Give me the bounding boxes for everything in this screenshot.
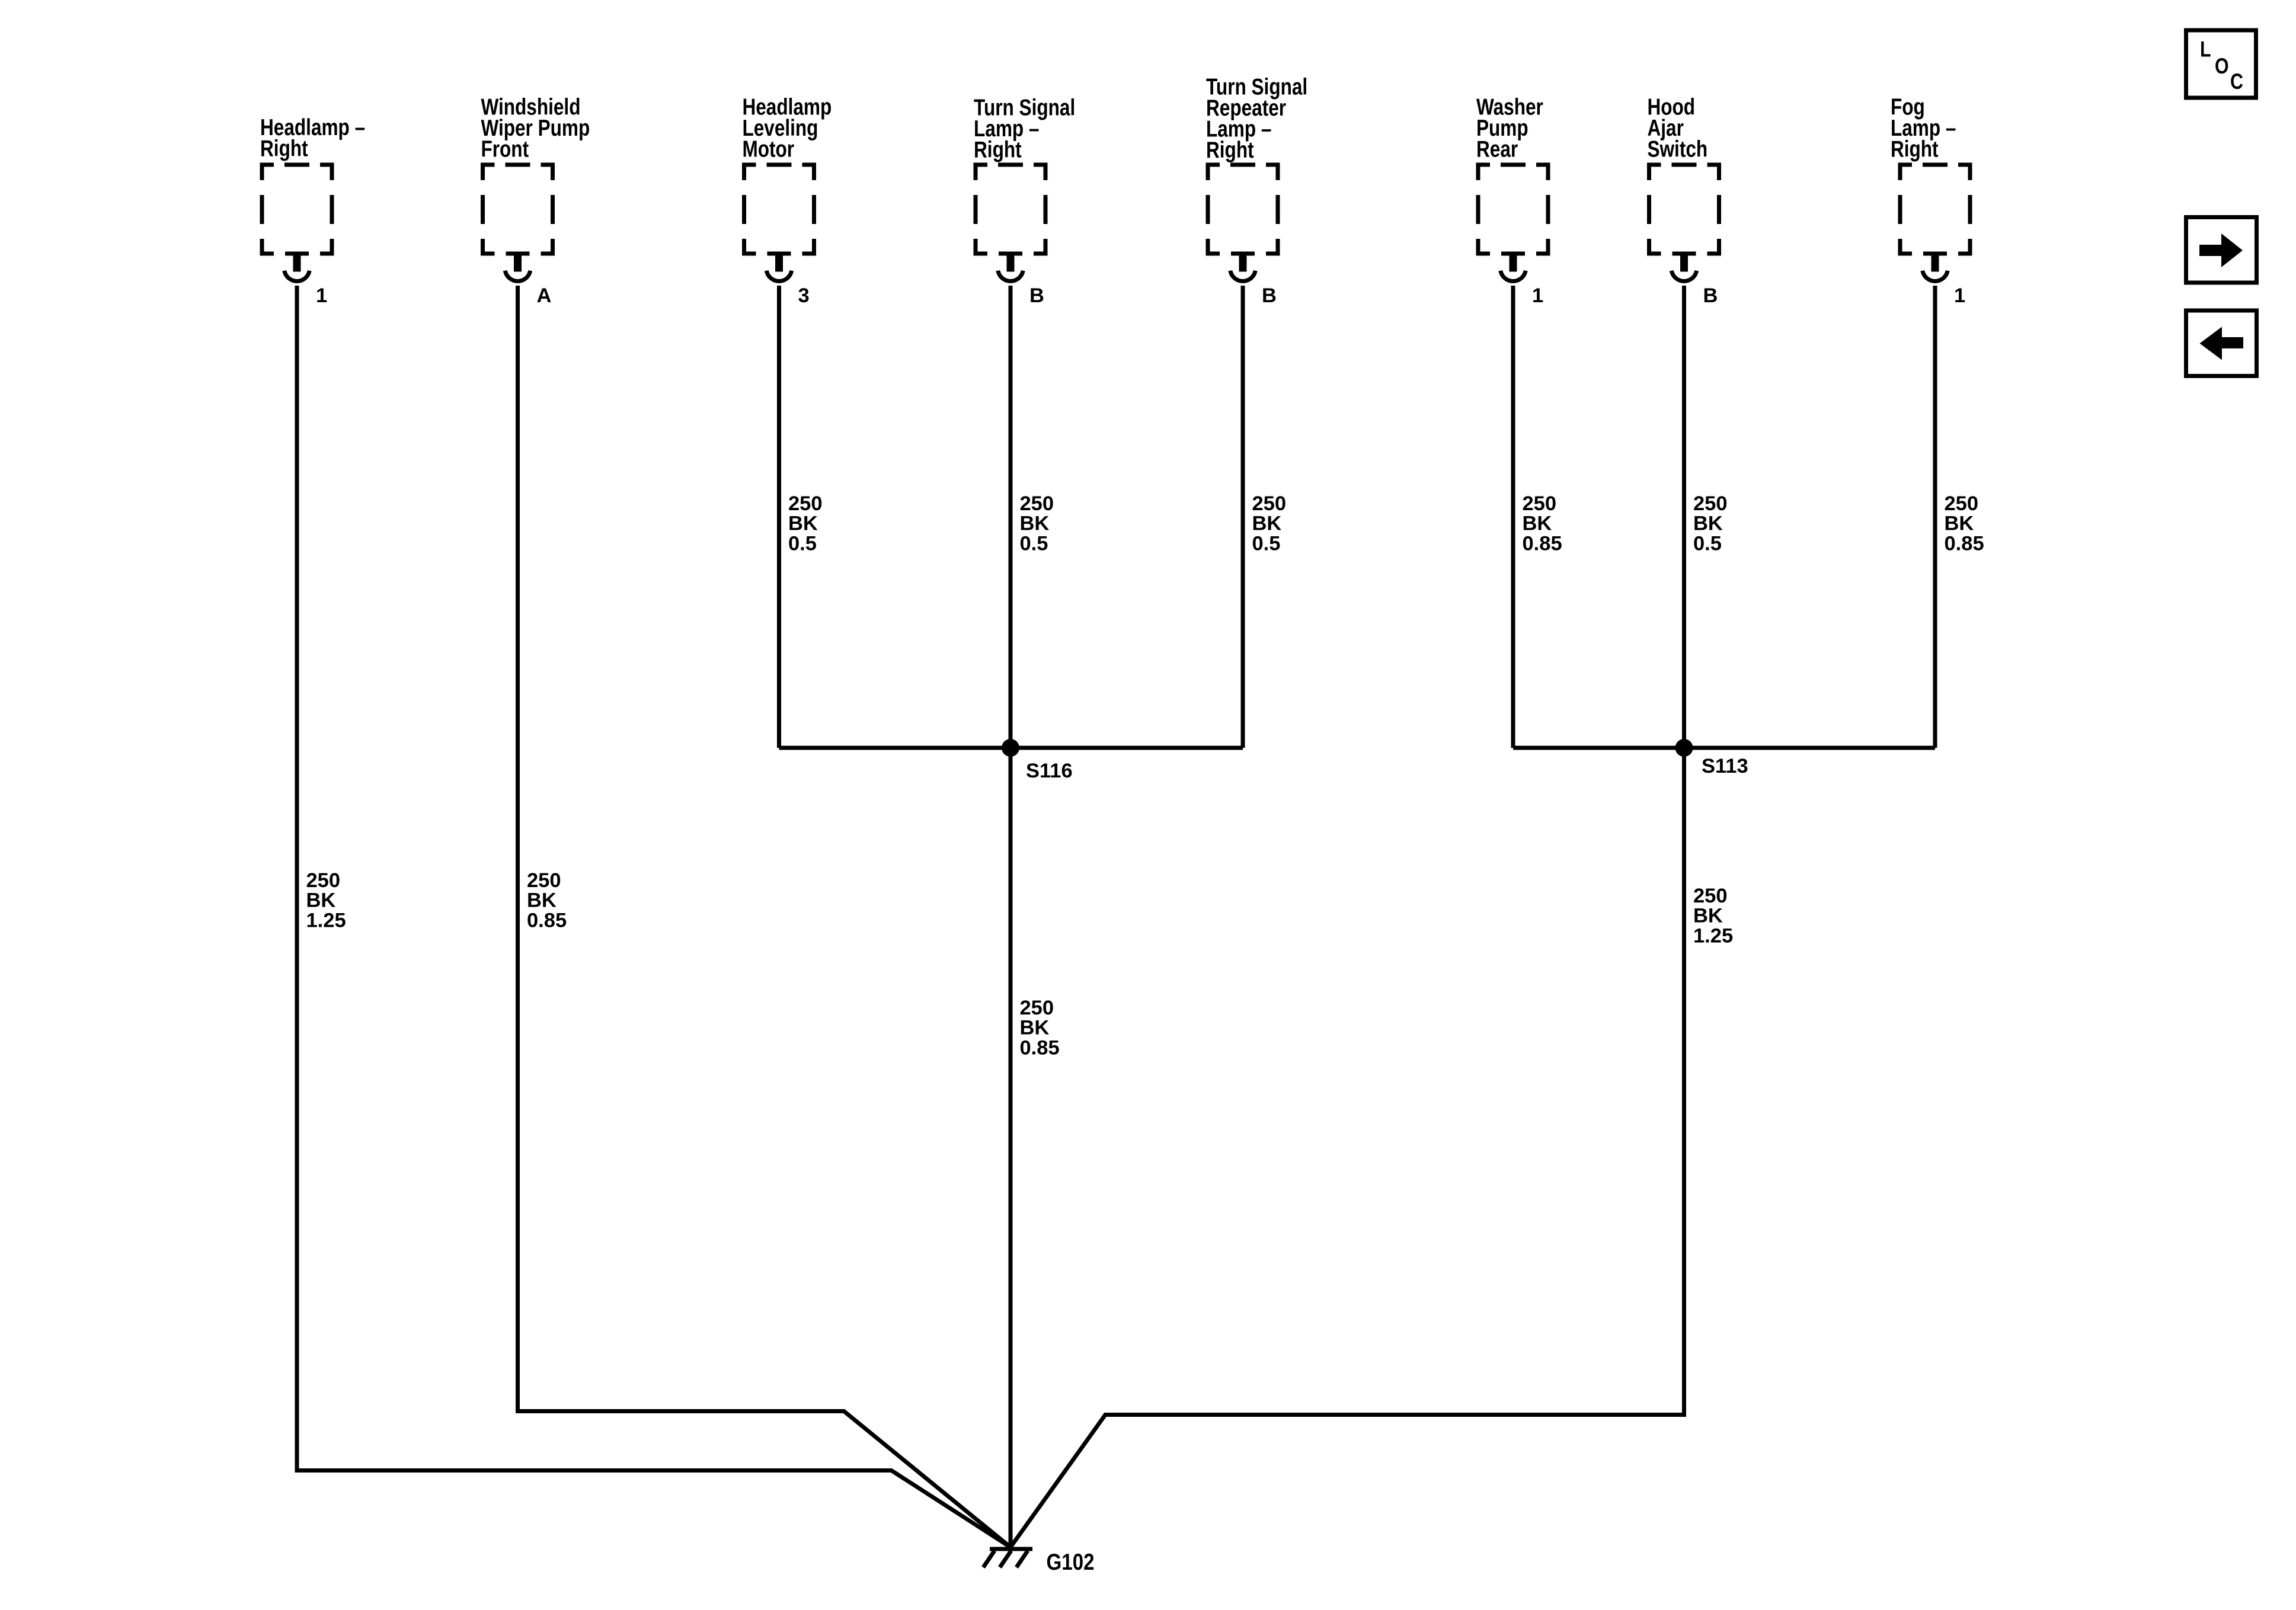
wire W5 Turn Signal Repeater to S116: [1241, 286, 1245, 748]
wire W4 Turn Signal Lamp through S116 to G102: [1009, 286, 1013, 1549]
wire bus S116: [779, 746, 1243, 750]
svg-text:0.5: 0.5: [788, 532, 817, 555]
svg-text:250: 250: [306, 869, 341, 892]
svg-text:0.85: 0.85: [1523, 532, 1562, 555]
wire bus S113: [1513, 746, 1935, 750]
svg-text:250: 250: [1020, 997, 1054, 1019]
connector C7 Hood Ajar Switch: [1647, 163, 1721, 281]
label C6 Washer Pump Rear: [1476, 95, 1543, 162]
svg-text:250: 250: [1523, 492, 1557, 515]
connector C6 Washer Pump Rear: [1476, 163, 1550, 281]
svg-text:O: O: [2215, 54, 2229, 79]
svg-text:BK: BK: [788, 513, 818, 535]
svg-text:250: 250: [527, 869, 561, 892]
connector C1 Headlamp Right: [260, 163, 334, 281]
svg-text:BK: BK: [527, 889, 557, 912]
svg-text:250: 250: [788, 492, 823, 515]
svg-text:1: 1: [1954, 284, 1965, 307]
svg-text:BK: BK: [1693, 905, 1723, 927]
svg-text:BK: BK: [306, 889, 336, 912]
svg-text:250: 250: [1693, 492, 1728, 515]
wire W2 Windshield Wiper Pump to G102: [518, 286, 1011, 1547]
connector C3 Headlamp Leveling Motor: [742, 163, 816, 281]
svg-text:BK: BK: [1945, 513, 1974, 535]
svg-text:S116: S116: [1026, 760, 1073, 782]
svg-text:BK: BK: [1523, 513, 1552, 535]
svg-text:250: 250: [1945, 492, 1979, 515]
svg-text:0.5: 0.5: [1693, 532, 1722, 555]
junction S113 dot: [1675, 739, 1693, 757]
svg-text:BK: BK: [1252, 513, 1282, 535]
LOC letter L: [2200, 37, 2211, 62]
svg-text:B: B: [1703, 284, 1718, 307]
svg-text:250: 250: [1020, 492, 1054, 515]
svg-text:1.25: 1.25: [1693, 924, 1733, 947]
wire W3 Headlamp Leveling Motor to S116: [777, 286, 781, 748]
node G102 label: [1047, 1548, 1095, 1574]
label C5 Turn Signal Repeater Lamp - Right: [1206, 75, 1307, 163]
svg-text:Rear: Rear: [1476, 137, 1518, 162]
wire W6 Washer Pump Rear to S113: [1511, 286, 1515, 748]
svg-text:C: C: [2230, 69, 2243, 94]
svg-text:BK: BK: [1693, 513, 1723, 535]
svg-text:0.85: 0.85: [1020, 1036, 1060, 1059]
svg-text:Front: Front: [481, 137, 529, 162]
svg-text:B: B: [1262, 284, 1277, 307]
wire W8 Fog Lamp Right to S113: [1933, 286, 1937, 748]
nav box left arrow: [2186, 311, 2257, 376]
svg-text:BK: BK: [1020, 513, 1050, 535]
svg-text:1.25: 1.25: [306, 909, 346, 932]
svg-text:3: 3: [798, 284, 810, 307]
svg-text:1: 1: [1532, 284, 1543, 307]
svg-text:Right: Right: [260, 136, 308, 162]
connector C4 Turn Signal Lamp Right: [974, 163, 1048, 281]
wire W1 Headlamp Right pin1 to G102: [297, 286, 1011, 1547]
LOC reference box: [2186, 30, 2256, 98]
label C7 Hood Ajar Switch: [1647, 95, 1707, 162]
wire W7 Hood Ajar Switch through S113 to G102: [1011, 286, 1684, 1547]
label C8 Fog Lamp - Right: [1891, 95, 1956, 162]
svg-text:0.5: 0.5: [1020, 532, 1048, 555]
svg-text:B: B: [1029, 284, 1044, 307]
svg-text:Right: Right: [1891, 137, 1939, 162]
svg-text:0.85: 0.85: [1945, 532, 1984, 555]
svg-text:250: 250: [1252, 492, 1287, 515]
LOC letter O: [2215, 54, 2229, 79]
svg-text:1: 1: [316, 284, 327, 307]
label C3 Headlamp Leveling Motor: [742, 95, 832, 162]
connector C5 Turn Signal Repeater Lamp Right: [1206, 163, 1280, 281]
junction S116 dot: [1002, 739, 1019, 757]
svg-text:Motor: Motor: [742, 137, 794, 162]
nav box right arrow: [2186, 217, 2257, 283]
label C1 Headlamp - Right: [260, 115, 365, 161]
svg-text:A: A: [537, 284, 552, 307]
connector C8 Fog Lamp Right: [1898, 163, 1972, 281]
svg-text:BK: BK: [1020, 1017, 1050, 1039]
connector C2 Windshield Wiper Pump Front: [481, 163, 555, 281]
svg-text:S113: S113: [1702, 755, 1748, 777]
label C2 Windshield Wiper Pump Front: [481, 95, 590, 162]
svg-text:250: 250: [1693, 885, 1728, 907]
svg-text:L: L: [2200, 37, 2211, 62]
label C4 Turn Signal Lamp - Right: [974, 95, 1075, 163]
svg-text:Right: Right: [1206, 137, 1254, 163]
svg-text:G102: G102: [1047, 1548, 1095, 1574]
svg-text:0.5: 0.5: [1252, 532, 1281, 555]
svg-text:0.85: 0.85: [527, 909, 567, 932]
svg-text:Right: Right: [974, 137, 1022, 163]
svg-text:Switch: Switch: [1647, 137, 1707, 162]
LOC letter C: [2230, 69, 2243, 94]
ground G102 symbol: [983, 1549, 1032, 1567]
